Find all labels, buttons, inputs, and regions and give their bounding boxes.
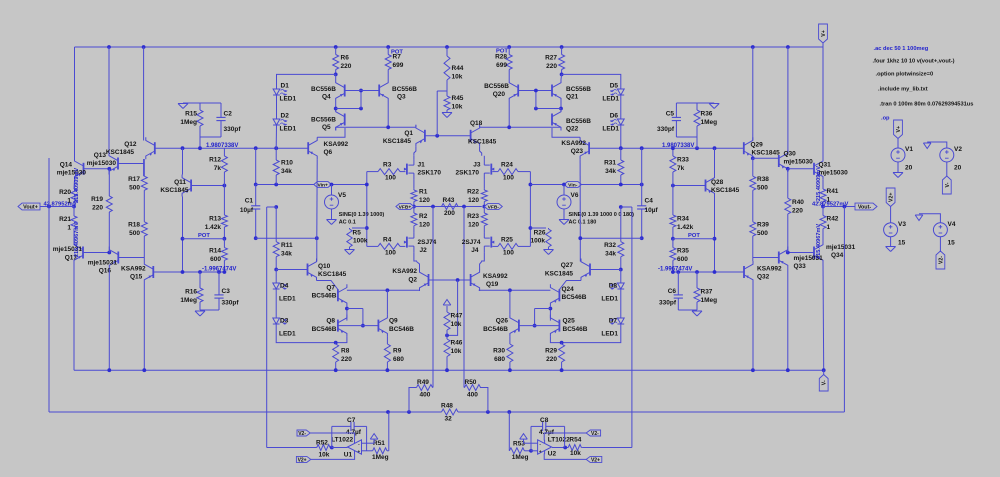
resistor R29 — [545, 343, 565, 371]
wire Q12 collector to rail — [143, 47, 145, 141]
transistor Q34 mje15031 — [814, 242, 856, 264]
svg-text:.tran 0 100m 80m 0.07629394531: .tran 0 100m 80m 0.07629394531us — [880, 102, 974, 108]
transistor Q3 BC556B — [379, 80, 417, 102]
svg-text:220: 220 — [546, 356, 557, 363]
capacitor C4 — [637, 198, 658, 215]
flag VFB- — [484, 204, 502, 211]
wire Q26 collector up — [509, 290, 511, 314]
svg-text:330pf: 330pf — [224, 126, 242, 133]
ground V1 — [893, 173, 903, 178]
wire Q27 emitter to Q24 base — [559, 281, 581, 290]
svg-text:15: 15 — [898, 240, 906, 247]
svg-text:699: 699 — [496, 62, 507, 69]
node Q27 collector tap — [578, 236, 582, 240]
wire V2 bottom — [946, 162, 948, 176]
wire D4-D3 — [275, 290, 277, 319]
svg-text:100: 100 — [385, 175, 396, 182]
wire J2 drain down — [414, 252, 417, 261]
svg-text:R24: R24 — [501, 162, 513, 169]
voltage source V5 — [325, 192, 347, 209]
svg-text:POT: POT — [198, 233, 210, 239]
svg-text:1: 1 — [827, 224, 831, 231]
svg-text:400: 400 — [467, 392, 478, 399]
resistor R49 — [417, 379, 434, 399]
svg-text:.ac dec 50 1 100meg: .ac dec 50 1 100meg — [874, 46, 929, 52]
wire Q16 base — [118, 257, 144, 259]
node V5 tap — [330, 183, 334, 187]
transistor Q30 mje15030 — [779, 150, 813, 172]
wire Q1 emitter to J1 — [414, 147, 416, 156]
node top rail x788 — [786, 45, 790, 49]
transistor Q24 BC546B — [550, 284, 586, 306]
node Q17b-Q16e-R19 — [107, 251, 111, 255]
svg-text:1Meg: 1Meg — [180, 297, 197, 304]
wire input trunk right — [529, 172, 531, 247]
wire D5-D6 — [620, 96, 622, 120]
node rail272r x673 — [671, 270, 675, 274]
svg-text:120: 120 — [419, 197, 430, 204]
svg-text:R27: R27 — [545, 55, 557, 62]
svg-text:C7: C7 — [347, 417, 356, 424]
svg-text:R48: R48 — [441, 403, 453, 410]
svg-text:.four 1khz 10 10 v(vout+,vout-: .four 1khz 10 10 v(vout+,vout-) — [873, 59, 955, 65]
wire bottom rail left — [49, 411, 442, 413]
svg-text:KSA992: KSA992 — [392, 268, 417, 275]
svg-text:10k: 10k — [452, 73, 463, 80]
node R29 top — [560, 341, 564, 345]
wire Q7e to Q8c — [346, 306, 348, 320]
svg-text:1Meg: 1Meg — [180, 119, 197, 126]
svg-text:BC556B: BC556B — [566, 118, 591, 125]
ground left bottom — [195, 311, 205, 316]
node rail272 x219 — [217, 270, 221, 274]
wire feedback riser left x433 — [432, 207, 434, 388]
resistor R38 — [750, 158, 770, 196]
power arrow above R47 — [443, 300, 451, 306]
svg-text:mje15030: mje15030 — [819, 170, 849, 177]
svg-text:mje15030: mje15030 — [87, 160, 117, 167]
transistor Q21 BC556B — [552, 80, 591, 102]
wire Q6 emitter to Q5 base — [317, 128, 345, 137]
wire D3 to R8 — [276, 325, 336, 343]
svg-text:BC546B: BC546B — [312, 326, 337, 333]
wire R42 to Q34 emitter — [822, 242, 824, 243]
resistor R33 — [670, 148, 689, 185]
svg-text:R6: R6 — [341, 55, 350, 62]
svg-text:D8: D8 — [609, 283, 618, 290]
node trunk R26 — [529, 226, 533, 230]
resistor R14 — [209, 239, 227, 272]
node rail272 x224 — [223, 270, 227, 274]
resistor R45 — [444, 91, 464, 112]
wire Q29e to Q30 base — [753, 157, 779, 159]
svg-text:V6: V6 — [571, 192, 579, 199]
wire Q29 base — [742, 147, 745, 149]
wire Q24e to Q25c — [549, 306, 551, 320]
svg-text:680: 680 — [393, 356, 404, 363]
wire U2 V- pin — [544, 454, 586, 460]
transistor Q28 KSC1845 — [706, 175, 740, 197]
wire Q33 base — [753, 257, 779, 259]
node top rail x144 — [142, 45, 146, 49]
transistor Q25 BC546B — [550, 315, 587, 337]
wire C7 left riser — [331, 426, 333, 447]
node rail272 x200 — [198, 270, 202, 274]
wire R53 feed riser — [508, 412, 510, 451]
wire Q11 base to R12/R13 — [191, 185, 224, 187]
wire right bias rail y272 — [673, 271, 744, 273]
svg-text:Vin-: Vin- — [568, 183, 578, 189]
svg-text:R15: R15 — [185, 111, 197, 118]
wire Q30 collector to rail — [787, 47, 789, 153]
node rail272r x714 — [713, 270, 717, 274]
svg-text:R54: R54 — [569, 437, 581, 444]
transistor Q31 mje15030 — [814, 158, 848, 180]
wire V5 bottom lead — [331, 209, 333, 219]
svg-text:Vout-: Vout- — [858, 205, 872, 211]
svg-text:KSC1845: KSC1845 — [383, 138, 412, 145]
wire Q19 collector down — [478, 289, 481, 292]
resistor R30 — [493, 344, 513, 370]
node POT right a — [671, 237, 675, 241]
capacitor C1 — [240, 198, 260, 215]
svg-text:V4: V4 — [948, 221, 956, 228]
resistor R44 — [444, 47, 464, 91]
svg-text:J4: J4 — [471, 247, 479, 254]
svg-text:10k: 10k — [451, 321, 462, 328]
svg-text:R41: R41 — [827, 188, 839, 195]
wire C3 top lead — [218, 272, 220, 295]
svg-text:V2-: V2- — [298, 431, 306, 437]
transistor Q5 BC556B — [311, 109, 345, 132]
ground arrow V2 — [923, 143, 931, 149]
wire Q23c to Q27 collector — [579, 238, 581, 261]
node rail148 x200 — [198, 146, 202, 150]
node VFB riser left — [431, 205, 435, 209]
svg-text:mje15031: mje15031 — [826, 244, 856, 251]
svg-text:10k: 10k — [319, 452, 330, 459]
wire R50 riser — [480, 388, 488, 413]
svg-text:KSA992: KSA992 — [121, 266, 146, 273]
resistor R21 — [59, 207, 77, 243]
node top rail x562 — [560, 45, 564, 49]
node Q7e tie — [345, 307, 349, 311]
svg-text:R26: R26 — [534, 230, 546, 237]
node top rail x388 — [386, 45, 390, 49]
svg-text:V2+: V2+ — [298, 457, 307, 463]
svg-text:Q26: Q26 — [496, 318, 509, 325]
svg-text:D1: D1 — [281, 83, 290, 90]
wire D1 chain top — [277, 74, 336, 89]
wire Q28 collector up — [714, 148, 716, 174]
svg-text:34k: 34k — [281, 250, 292, 257]
svg-text:1Meg: 1Meg — [512, 454, 529, 461]
wire jog to U2 riser — [621, 206, 632, 208]
wire input trunk left — [366, 172, 368, 247]
wire Q30 emitter lead — [787, 169, 789, 172]
svg-text:500: 500 — [757, 230, 768, 237]
wire Q8-Q9 base rail — [338, 325, 379, 327]
ground right top — [709, 104, 719, 109]
svg-text:BC546B: BC546B — [312, 293, 337, 300]
svg-text:KSA992: KSA992 — [324, 141, 349, 148]
JFET J4 2SJ74 — [462, 232, 495, 254]
svg-text:Q3: Q3 — [397, 94, 406, 101]
svg-text:220: 220 — [92, 204, 103, 211]
svg-text:BC546B: BC546B — [389, 326, 414, 333]
node top rail x753 — [751, 45, 755, 49]
wire Q16 collector down — [108, 269, 110, 371]
wire Q26 emitter to R30 — [509, 337, 511, 344]
wire C6/R37 bottom — [678, 309, 697, 311]
wire U2 riser x632 — [631, 207, 633, 448]
wire Q13 base to Q12 emitter line — [118, 163, 144, 165]
wire Q2-Q19 base rail — [429, 279, 471, 281]
wire C6 bottom lead — [677, 298, 679, 310]
wire Q25-Q26 base rail — [519, 325, 560, 327]
diode D7 LED1 — [601, 318, 624, 338]
svg-text:R40: R40 — [792, 199, 804, 206]
svg-text:-215.40967mV: -215.40967mV — [74, 222, 80, 259]
svg-text:V-: V- — [945, 182, 951, 187]
wire Q23 emitter to Q22 base — [552, 128, 580, 137]
wire U2 sense input — [582, 447, 632, 449]
svg-text:Q1: Q1 — [404, 130, 413, 137]
node POT left b — [223, 237, 227, 241]
svg-text:LED1: LED1 — [602, 96, 619, 103]
transistor Q32 KSA992 — [744, 261, 782, 283]
wire C2 top lead — [220, 103, 222, 117]
JFET J1 2SK170 — [404, 159, 441, 179]
wire Q21 emitter up — [560, 74, 563, 79]
transistor Q23 KSA992 — [561, 137, 589, 159]
wire right mid rail y148 — [589, 147, 743, 149]
resistor R17 — [128, 159, 147, 196]
wire U1 riser x267 — [266, 207, 268, 448]
wire Q17 base — [83, 252, 109, 254]
node mirror tie right — [534, 107, 538, 111]
node VFB riser right — [462, 205, 466, 209]
wire jog to U1 riser — [267, 206, 277, 208]
resistor R9 — [384, 344, 404, 370]
voltage source V6 — [557, 192, 579, 209]
svg-text:1.9807338V: 1.9807338V — [662, 143, 694, 149]
svg-text:2SJ74: 2SJ74 — [462, 239, 481, 246]
wire Q25 base tie v — [534, 309, 536, 326]
wire mirror tie v right — [535, 91, 537, 109]
svg-text:R35: R35 — [677, 248, 689, 255]
power arrow U2 stem — [523, 439, 525, 443]
resistor R8 — [333, 343, 353, 371]
node V- rail R29 — [560, 368, 564, 372]
wire feedback vertical x844 — [843, 207, 845, 413]
svg-text:LED1: LED1 — [280, 126, 297, 133]
svg-text:R43: R43 — [443, 197, 455, 204]
resistor R26 — [530, 228, 551, 249]
svg-text:LED1: LED1 — [601, 296, 618, 303]
svg-text:R18: R18 — [128, 222, 140, 229]
svg-text:R31: R31 — [604, 160, 616, 167]
wire Q32 collector down — [752, 283, 754, 370]
ground right bottom — [692, 311, 702, 316]
svg-text:100: 100 — [385, 250, 396, 257]
svg-text:U2: U2 — [548, 451, 557, 458]
svg-text:1.42k: 1.42k — [205, 224, 222, 231]
wire left mid rail y148 — [155, 147, 308, 149]
svg-text:BC556B: BC556B — [566, 86, 591, 93]
node Q10 collector tap — [315, 236, 319, 240]
svg-text:R47: R47 — [451, 313, 463, 320]
wire VAS collector rail left — [336, 126, 416, 128]
wire Q14 emitter to R20 — [73, 180, 76, 189]
svg-text:1Meg: 1Meg — [701, 297, 718, 304]
svg-text:C5: C5 — [666, 111, 675, 118]
wire R44 jog — [437, 90, 447, 92]
svg-text:Q30: Q30 — [784, 151, 797, 158]
node R47/R46 — [445, 334, 449, 338]
svg-text:.op: .op — [881, 116, 890, 122]
wire Q20 collector down — [508, 102, 510, 128]
svg-text:LT1022: LT1022 — [331, 437, 353, 444]
svg-text:500: 500 — [129, 184, 140, 191]
svg-text:2SK170: 2SK170 — [456, 170, 480, 177]
wire V1 bottom — [897, 162, 899, 172]
svg-text:1.9807338V: 1.9807338V — [206, 143, 238, 149]
wire Vin- node — [530, 184, 641, 186]
wire Q4 emitter up — [335, 74, 337, 79]
wire R49 riser — [409, 388, 417, 413]
svg-text:-1.9967474V: -1.9967474V — [658, 267, 692, 273]
wire gnd to C5/R36 top — [676, 102, 714, 104]
transistor Q29 KSC1845 — [744, 137, 780, 159]
svg-text:BC556B: BC556B — [484, 83, 509, 90]
power arrow U1 — [370, 434, 378, 440]
node trunk Vin+ — [365, 183, 369, 187]
wire Q1 base rail — [425, 135, 471, 137]
resistor R3 — [367, 162, 406, 182]
svg-text:.include my_lib.txt: .include my_lib.txt — [878, 87, 928, 93]
svg-text:D5: D5 — [610, 83, 619, 90]
svg-text:.option plotwinsize=0: .option plotwinsize=0 — [876, 72, 934, 78]
svg-text:mje15031: mje15031 — [88, 260, 118, 267]
svg-text:Q34: Q34 — [831, 252, 844, 259]
svg-text:R1: R1 — [419, 189, 428, 196]
flag V+ top — [819, 24, 828, 43]
svg-text:R44: R44 — [452, 65, 464, 72]
svg-text:Q6: Q6 — [324, 149, 333, 156]
transistor Q13 mje15030 — [87, 152, 118, 175]
svg-text:LED1: LED1 — [279, 296, 296, 303]
node rail148r x641 — [640, 146, 644, 150]
svg-text:R22: R22 — [467, 189, 479, 196]
svg-text:R30: R30 — [493, 348, 505, 355]
svg-text:330pf: 330pf — [222, 300, 240, 307]
svg-text:R45: R45 — [452, 95, 464, 102]
svg-text:mje15030: mje15030 — [57, 170, 87, 177]
resistor R34 — [670, 186, 694, 239]
resistor R32 — [604, 207, 624, 270]
wire rail148r corner down to C4 — [641, 148, 643, 184]
capacitor C5 — [657, 111, 681, 134]
wire R21 to Q17 emitter — [73, 242, 75, 243]
svg-text:V2: V2 — [954, 146, 962, 153]
svg-text:KSA992: KSA992 — [483, 273, 508, 280]
node rail272r x678 — [676, 270, 680, 274]
svg-text:R9: R9 — [393, 348, 402, 355]
svg-text:R17: R17 — [128, 176, 140, 183]
resistor R52 — [316, 440, 332, 459]
node V- rail Q15c — [142, 368, 146, 372]
wire V+ flag stem — [822, 43, 824, 47]
wire V6 top lead — [563, 185, 565, 196]
wire Q25 base tie h — [535, 308, 551, 310]
svg-text:Q33: Q33 — [794, 263, 807, 270]
node top rail x509 — [507, 45, 511, 49]
node V- rail Q34c — [822, 368, 826, 372]
svg-text:D7: D7 — [609, 318, 618, 325]
svg-text:J3: J3 — [473, 162, 481, 169]
wire feedback riser right x464 — [463, 207, 465, 388]
wire C5 bottom lead — [675, 121, 677, 137]
node R31 bottom — [619, 183, 623, 187]
svg-text:R10: R10 — [281, 160, 293, 167]
svg-text:Q29: Q29 — [751, 142, 764, 149]
resistor R37 — [694, 272, 717, 310]
JFET J2 2SJ74 — [404, 232, 437, 254]
svg-text:R38: R38 — [757, 176, 769, 183]
op-amp U1 LT1022 — [331, 437, 361, 459]
node Q28 base-R33 — [671, 184, 675, 188]
node trunk R5 — [365, 226, 369, 230]
resistor R42 — [820, 207, 839, 243]
wire Q29 collector to rail — [752, 47, 754, 140]
resistor R2 — [411, 207, 430, 233]
svg-text:20: 20 — [905, 165, 913, 172]
svg-text:42.87952mV: 42.87952mV — [44, 201, 77, 207]
svg-text:1Meg: 1Meg — [372, 454, 389, 461]
svg-text:KSC1845: KSC1845 — [711, 187, 740, 194]
svg-text:215.40909mV: 215.40909mV — [74, 168, 80, 203]
node R50 riser — [486, 410, 490, 414]
svg-text:10k: 10k — [452, 103, 463, 110]
wire C7 left — [332, 425, 351, 427]
svg-text:V1: V1 — [905, 146, 913, 153]
svg-text:15: 15 — [948, 240, 956, 247]
diode D8 LED1 — [601, 283, 624, 303]
svg-text:R36: R36 — [701, 111, 713, 118]
wire U1 output to apex — [332, 447, 348, 449]
svg-text:KSC1845: KSC1845 — [468, 139, 497, 146]
svg-text:R2: R2 — [419, 213, 428, 220]
svg-text:R7: R7 — [393, 54, 402, 61]
wire U1 V- pin — [311, 454, 355, 460]
svg-text:500: 500 — [757, 184, 768, 191]
node mirror tie — [359, 107, 363, 111]
svg-text:32: 32 — [445, 416, 453, 423]
node rail148 x276 — [274, 146, 278, 150]
svg-text:Q4: Q4 — [322, 94, 331, 101]
resistor R12 — [209, 148, 227, 185]
node VFB- — [482, 205, 486, 209]
node R30/Q26 collector — [508, 288, 512, 292]
svg-text:POT: POT — [688, 233, 700, 239]
wire POT rail right — [673, 238, 715, 240]
svg-text:LED1: LED1 — [602, 126, 619, 133]
wire C5/R36 bottom — [676, 136, 697, 138]
svg-text:R42: R42 — [827, 216, 839, 223]
resistor R19 — [91, 169, 112, 253]
node Q25/Q26 base — [533, 324, 537, 328]
